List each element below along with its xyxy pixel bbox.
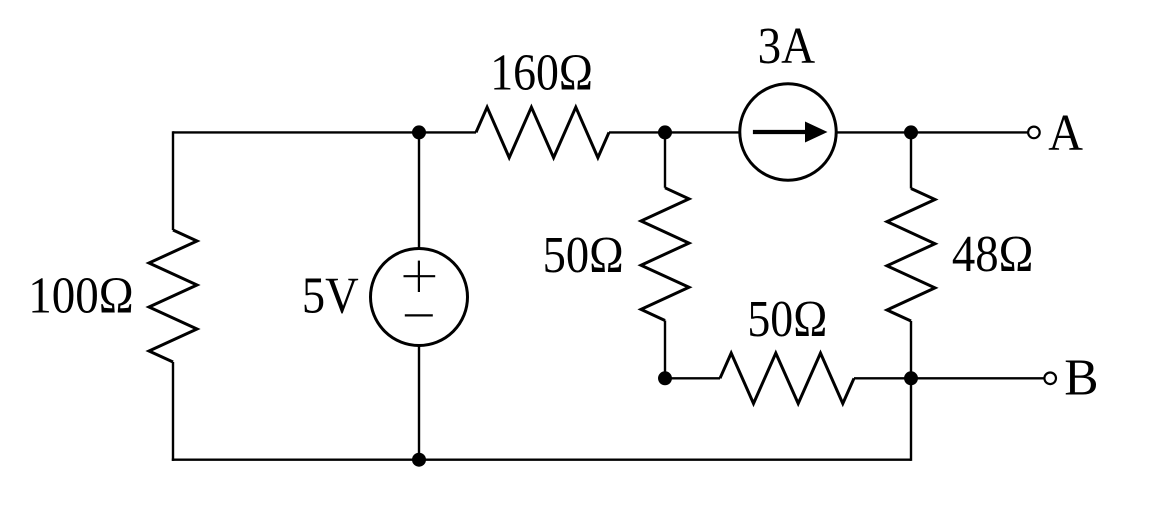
wire current source to terminal A: [836, 131, 1029, 133]
resistor R 50ohm vertical: [641, 188, 689, 321]
wire right rail upper: [910, 132, 912, 188]
node dot bottom at 5V rail: [412, 453, 426, 467]
terminal B open circle: [1044, 373, 1056, 385]
wire right rail to terminal B: [911, 377, 1045, 379]
resistor R 48ohm: [887, 189, 935, 322]
svg-text:48Ω: 48Ω: [952, 226, 1034, 283]
arrow head: [805, 122, 828, 143]
wire right rail middle: [910, 321, 912, 378]
resistor R 160ohm: [476, 107, 609, 157]
node dot top-1 at 5V rail: [412, 125, 426, 139]
wire top middle (160ohm right side to current source): [609, 131, 741, 133]
wire left rail lower: [172, 362, 174, 461]
wire right rail bottom segment: [910, 378, 912, 461]
minus sign: [405, 314, 433, 316]
wire middle rail lower: [664, 321, 666, 379]
arrow shaft: [753, 130, 807, 134]
wire top-left horizontal: [173, 131, 476, 133]
wire bottom rail: [172, 459, 911, 461]
wire 5V rail lower: [418, 345, 420, 460]
svg-text:B: B: [1064, 350, 1098, 407]
wire 50ohm horizontal to right rail: [854, 377, 911, 379]
svg-text:160Ω: 160Ω: [490, 45, 593, 102]
node dot mid at middle rail bottom: [658, 371, 672, 385]
svg-text:50Ω: 50Ω: [747, 291, 827, 348]
voltage source V1 5V circle: [371, 249, 468, 346]
terminal A open circle: [1028, 127, 1040, 139]
svg-text:50Ω: 50Ω: [543, 227, 624, 284]
resistor R 100ohm: [149, 230, 197, 362]
svg-text:3A: 3A: [758, 18, 816, 75]
svg-text:A: A: [1048, 105, 1083, 162]
node dot top-3 at right rail: [904, 125, 918, 139]
resistor R 50ohm horizontal: [720, 353, 854, 403]
svg-text:100Ω: 100Ω: [28, 268, 133, 325]
plus sign: [404, 275, 436, 277]
wire 5V rail upper: [418, 132, 420, 249]
wire middle rail upper: [664, 132, 666, 187]
svg-text:5V: 5V: [302, 267, 359, 324]
wire node to 50ohm horizontal: [665, 377, 720, 379]
current source I1 3A circle: [740, 84, 836, 180]
node dot mid at right rail: [904, 371, 918, 385]
node dot top-2 at middle rail: [658, 125, 672, 139]
wire left rail upper: [172, 131, 174, 230]
